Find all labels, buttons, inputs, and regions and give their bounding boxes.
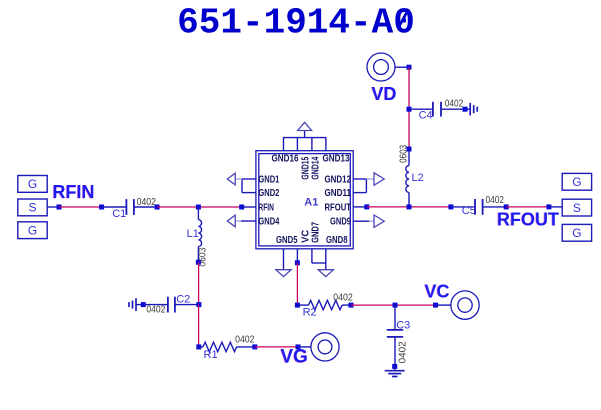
junction C2 right [196,302,201,307]
wire RFOUT pin stub [353,206,367,208]
net label VG [280,347,308,368]
wire GND7 pin [311,249,313,263]
wire GND8 pin [325,249,327,270]
svg-text:RFOUT: RFOUT [497,209,559,229]
svg-text:0402: 0402 [445,98,464,109]
svg-text:RFOUT: RFOUT [325,202,352,213]
net label VD [371,84,397,104]
wire VC net vertical [296,263,298,305]
wire GND1-GND2 bracket [241,179,243,193]
svg-text:G: G [572,226,581,240]
wire C1 to junction [134,206,157,208]
svg-text:GND4: GND4 [258,217,279,228]
wire L1 bottom lead [197,247,199,263]
wire VC pin [296,249,298,263]
svg-text:G: G [572,175,581,189]
svg-text:A1: A1 [304,197,318,209]
net label RFIN [52,182,95,202]
wire arrow stub GND4 [235,220,241,222]
wire C5 to junction [483,206,506,208]
junction C4 right [463,107,468,112]
capacitor C5 [475,199,483,215]
wire to R2 [297,304,308,306]
wire top pins bracket [283,137,327,139]
wire GND14 pin [311,138,313,151]
wire RFOUT net to C5 [367,206,451,208]
wire GND7-GND8 bracket [312,262,326,264]
wire GND12 pin [353,178,366,180]
net label RFOUT [496,209,559,229]
resistor R1 [203,342,237,351]
wire RFOUT net [506,206,549,208]
junction L1 top [196,205,201,210]
port pad G (input top) [18,176,47,193]
wire GND1 pin [242,178,256,180]
wire VG net vertical lower [198,305,200,347]
power connector VD circle [367,53,395,81]
svg-text:C2: C2 [176,293,190,305]
wire GND11 pin [353,192,366,194]
wire RFIN pin stub [242,206,256,208]
junction RFOUT 2 [448,204,453,209]
junction L1 bottom [196,260,201,265]
capacitor C2 [168,297,175,313]
wire to R1 [199,346,203,348]
junction L2 bottom [407,204,412,209]
wire R1 to junction [237,346,255,348]
resistor R2 [309,300,343,309]
junction R2 left [295,303,300,308]
wire VD net vertical [408,67,410,149]
junction at IC RFOUT pin [364,204,369,209]
capacitor C3 [387,330,403,337]
ground (left of C2) [129,298,136,311]
svg-text:L1: L1 [187,228,199,240]
gnd arrow bottom right [318,270,333,277]
junction VD [407,65,412,70]
wire to ground [394,366,396,370]
ground (below C3) [385,371,405,377]
wire arrow stub GND1 [235,178,242,180]
svg-text:GND16: GND16 [272,154,299,165]
svg-text:RFIN: RFIN [53,182,95,202]
junction R1 right [252,344,257,349]
wire VG net horizontal [255,346,298,348]
svg-text:0402: 0402 [397,341,408,363]
port pad G (output top) [562,173,591,190]
wire L2 bottom lead [408,192,410,207]
svg-text:R1: R1 [204,349,218,361]
port pad S (input) [18,199,47,216]
wire junction to ground [465,108,470,110]
svg-text:S: S [573,201,581,215]
svg-text:GND14: GND14 [311,156,322,179]
junction RFIN 1 [57,205,62,210]
svg-text:GND13: GND13 [323,154,350,165]
svg-text:RFIN: RFIN [258,202,274,213]
junction R2 right [349,303,354,308]
wire to VC connector [436,304,451,306]
wire GND5 pin [283,249,285,270]
svg-text:GND1: GND1 [258,175,279,186]
wire L1 top lead [197,207,199,220]
wire C3 bottom lead [394,337,396,366]
svg-text:G: G [28,224,37,238]
wire C4 to junction [441,108,465,110]
junction L2 top [407,147,412,152]
inductor L2 [406,166,409,193]
junction RFIN 3 [155,205,160,210]
wire to C5 [451,206,475,208]
svg-text:GND9: GND9 [330,217,351,228]
svg-text:GND2: GND2 [258,188,279,199]
wire GND2 pin [242,192,256,194]
wire RFIN net [59,206,102,208]
net label VC [424,281,450,301]
wire GND12-GND11 bracket [365,179,367,193]
ground (right of C4) [470,103,477,116]
port pad S (output) [562,199,591,216]
power arrow top [298,122,312,130]
junction at IC RFIN pin [239,205,244,210]
junction RFIN 2 [99,205,104,210]
junction VC [433,303,438,308]
capacitor C4 [433,102,441,117]
inductor L1 [198,220,201,247]
wire GND9 pin [353,220,369,222]
junction C4 tee [407,107,412,112]
port pad G (output bottom) [562,224,591,241]
wire VC net horizontal [351,304,436,306]
op-amp/IC U A1 body [256,151,353,249]
wire GND16 pin [283,138,285,151]
svg-text:VD: VD [372,84,397,104]
wire arrow stub GND12 [366,178,374,180]
power connector VG circle [311,333,339,361]
title 651-1914-A0 [177,3,415,44]
wire L2 top lead [408,149,410,166]
junction VC pin [295,260,300,265]
wire to VG connector [298,346,311,348]
gnd arrow right bottom [374,215,384,227]
svg-text:0402: 0402 [333,293,353,304]
port pad G (input bottom) [18,222,47,239]
svg-text:S: S [28,201,36,215]
svg-text:0402: 0402 [486,195,505,206]
svg-text:GND7: GND7 [311,222,322,243]
svg-text:C1: C1 [112,208,126,220]
gnd arrow left top [227,173,235,185]
gnd arrow left bottom [227,215,235,227]
wire S pad to junction [47,206,59,208]
svg-text:GND8: GND8 [326,235,348,246]
wire to S pad [549,206,562,208]
svg-text:GND5: GND5 [276,235,298,246]
wire RFIN net to IC [157,206,242,208]
junction C3 ground [392,364,397,369]
wire to C2 [143,304,167,306]
junction RFOUT 3 [504,204,509,209]
wire GND15 pin [296,138,298,151]
wire VD connector to junction [395,66,409,68]
svg-text:L2: L2 [412,172,424,184]
svg-text:VG: VG [281,347,308,368]
wire top arrow stub [304,131,306,138]
wire C2 to junction [175,304,199,306]
junction C2 left [141,302,146,307]
wire GND13 pin [325,138,327,151]
wire to C1 [102,206,126,208]
svg-text:0402: 0402 [137,197,157,208]
svg-text:G: G [28,177,37,191]
gnd arrow right top [374,173,384,185]
wire GND4 pin [241,220,256,222]
junction VG [296,344,301,349]
wire to C4 [409,108,433,110]
svg-text:R2: R2 [303,306,317,318]
wire R2 to junction [342,304,351,306]
junction R1 left [196,344,201,349]
svg-text:651-1914-A0: 651-1914-A0 [177,3,415,44]
svg-text:0603: 0603 [398,145,409,163]
svg-text:GND12: GND12 [325,175,352,186]
svg-text:0402: 0402 [146,305,165,316]
svg-text:C5: C5 [462,205,476,217]
wire VG net vertical upper [198,262,200,304]
junction C3 top tee [393,303,398,308]
wire ground to junction [136,304,143,306]
svg-text:GND11: GND11 [325,188,352,199]
wire C3 top lead [394,305,396,330]
svg-text:VC: VC [425,281,450,301]
gnd arrow bottom left [276,270,291,277]
capacitor C1 [126,199,133,215]
junction RFOUT 4 [546,204,551,209]
svg-text:C4: C4 [419,110,433,122]
wire arrow stub GND9 [369,220,374,222]
svg-text:0402: 0402 [235,335,255,346]
power connector VC circle [451,291,479,319]
